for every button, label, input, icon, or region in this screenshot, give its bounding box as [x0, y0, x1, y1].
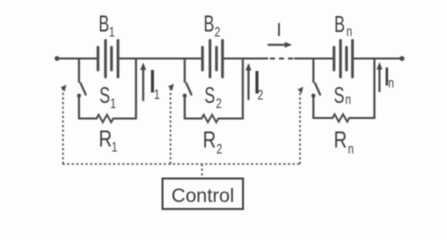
svg-text:1: 1 [110, 95, 116, 111]
wire: branch2 left drop [184, 59, 186, 83]
current arrow I (main, rightward) [269, 42, 293, 48]
svg-text:S: S [334, 83, 345, 109]
wire: branch1 lower left [78, 96, 80, 119]
svg-text:B: B [99, 12, 110, 38]
svg-text:2: 2 [258, 87, 264, 103]
svg-text:R: R [334, 127, 347, 153]
svg-text:n: n [348, 141, 354, 157]
current arrow I1 [140, 63, 146, 101]
label B2 [204, 12, 215, 38]
svg-text:n: n [346, 23, 352, 39]
svg-text:n: n [345, 91, 351, 107]
battery B1 [98, 40, 118, 77]
wire: branch1 bottom right [113, 117, 136, 119]
arrowhead to S1 [61, 85, 67, 92]
wire: branch1 bottom left [79, 117, 97, 119]
label Sn [334, 83, 345, 109]
svg-text:1: 1 [154, 86, 160, 102]
label I2 [253, 64, 262, 100]
svg-text:S: S [204, 83, 215, 109]
wire: branch-n left drop [312, 59, 314, 83]
wire: bus segment B1 to B2 [118, 57, 203, 59]
wire: bus segment break to Bn [295, 57, 334, 59]
resistor R2 [202, 115, 219, 122]
wire: branch2 bottom right [218, 117, 242, 119]
label B1 [99, 12, 110, 38]
control box [163, 179, 244, 210]
svg-text:R: R [203, 127, 216, 153]
svg-text:2: 2 [216, 95, 222, 111]
label Bn [334, 12, 345, 38]
svg-text:I: I [277, 20, 282, 40]
wire: branch-n bottom left [313, 117, 332, 119]
wire: dashed bus continuation gap [270, 57, 293, 59]
control dashed bus (horizontal) [63, 163, 301, 165]
wire: bus right segment from Bn [353, 57, 403, 59]
label S1 [99, 83, 110, 109]
wire: bus left segment to B1 [57, 57, 98, 59]
switch S1 [77, 83, 86, 97]
resistor R1 [97, 115, 114, 122]
battery Bn [334, 40, 353, 77]
battery B2 [203, 40, 223, 77]
wire: branch2 lower left [184, 96, 186, 119]
label Rn [334, 127, 347, 153]
wire: branch2 right riser [242, 59, 244, 119]
node: left bus terminal [55, 56, 60, 61]
current arrow I2 [246, 63, 252, 99]
svg-text:n: n [388, 75, 394, 91]
label R2 [203, 127, 216, 153]
control dashed line to Sn [299, 91, 301, 164]
arrowhead to Sn [298, 87, 304, 94]
label S2 [204, 83, 215, 109]
node: right bus terminal [400, 56, 405, 61]
control dashed line to S1 [62, 89, 64, 164]
svg-text:2: 2 [217, 141, 223, 157]
label In [383, 61, 390, 91]
wire: branch2 bottom left [185, 117, 202, 119]
wire: branch1 right riser [135, 59, 137, 119]
svg-text:S: S [99, 83, 110, 109]
current arrow In [377, 62, 383, 91]
svg-text:B: B [334, 12, 345, 38]
label R1 [99, 127, 112, 153]
wire: branch-n bottom right [349, 117, 374, 119]
wire: branch1 left drop [78, 59, 80, 83]
svg-text:Control: Control [171, 185, 234, 207]
wire: branch-n lower left [312, 96, 314, 118]
resistor Rn [333, 114, 350, 121]
wire: bus segment B2 to break [223, 57, 268, 59]
control dashed drop to Control box [201, 164, 203, 178]
svg-text:2: 2 [215, 24, 221, 40]
wire: branch-n right riser [373, 59, 375, 119]
label I1 [148, 64, 157, 100]
switch Sn [311, 83, 320, 97]
arrowhead to S2 [168, 84, 174, 91]
svg-text:R: R [99, 127, 112, 153]
label I (main current) [277, 20, 282, 40]
svg-text:1: 1 [112, 139, 118, 155]
svg-text:B: B [204, 12, 215, 38]
switch S2 [183, 83, 192, 97]
svg-text:1: 1 [109, 24, 115, 40]
control dashed line to S2 [170, 88, 172, 164]
